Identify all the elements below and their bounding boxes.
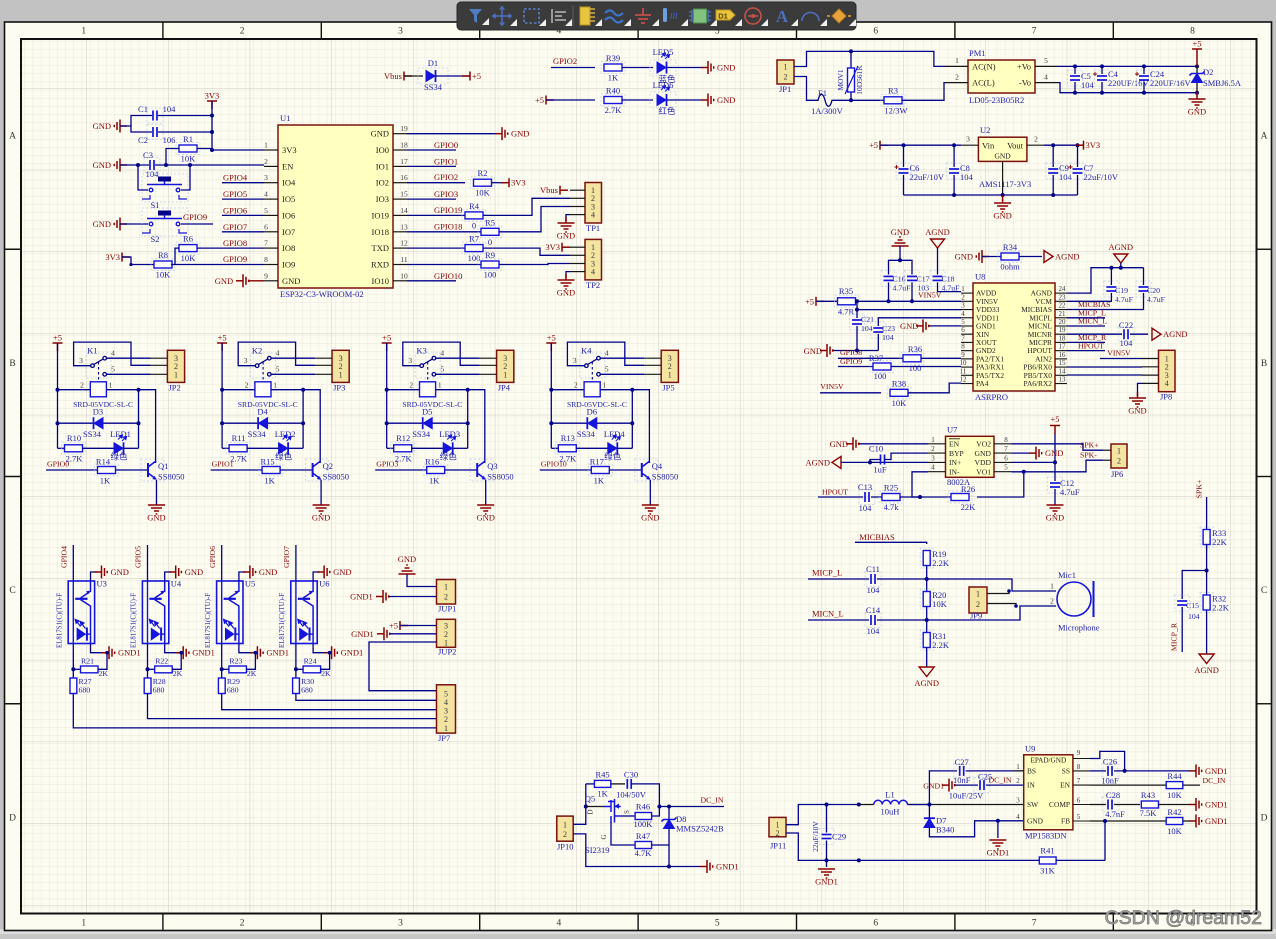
svg-text:IO5: IO5 bbox=[282, 194, 295, 204]
connector JP3 bbox=[332, 350, 349, 382]
svg-text:R10: R10 bbox=[67, 433, 81, 443]
wire K pin4 bbox=[600, 357, 644, 359]
svg-text:11: 11 bbox=[400, 255, 407, 264]
resistor R37 bbox=[870, 361, 894, 373]
svg-text:680: 680 bbox=[301, 686, 313, 695]
wire left rail bbox=[386, 343, 388, 448]
svg-text:1: 1 bbox=[931, 436, 935, 444]
svg-text:10: 10 bbox=[400, 271, 408, 280]
optocoupler U5 EL817 bbox=[217, 581, 243, 644]
wire bbox=[818, 496, 863, 498]
wire left rail bbox=[550, 343, 552, 448]
svg-text:IN: IN bbox=[1027, 781, 1035, 790]
svg-text:20: 20 bbox=[1059, 318, 1067, 326]
ground GND1 fb bbox=[1189, 815, 1202, 828]
svg-text:Q4: Q4 bbox=[652, 461, 663, 471]
svg-text:III: III bbox=[670, 11, 678, 21]
wire JP7 pin4 long bbox=[296, 694, 437, 701]
power +5 U2 bbox=[880, 141, 888, 150]
svg-text:2: 2 bbox=[80, 381, 84, 390]
svg-text:4: 4 bbox=[557, 919, 562, 929]
svg-text:1: 1 bbox=[784, 63, 788, 72]
pin 18 IO0 bbox=[393, 149, 407, 151]
wire bbox=[389, 596, 437, 598]
power 3V3 R2 bbox=[501, 178, 509, 187]
svg-text:Mic1: Mic1 bbox=[1058, 570, 1076, 580]
pin 15 PB6/RX0 bbox=[1055, 366, 1067, 368]
ground GND LED5 bbox=[701, 61, 714, 74]
svg-text:1K: 1K bbox=[264, 476, 275, 486]
svg-text:GPIO7: GPIO7 bbox=[223, 222, 247, 232]
capacitor C20 bbox=[1143, 268, 1145, 285]
svg-text:C29: C29 bbox=[832, 832, 846, 842]
svg-text:JP9: JP9 bbox=[970, 610, 982, 620]
wire emitter bbox=[320, 480, 322, 505]
wire JP1 pin2 down bbox=[794, 77, 815, 101]
connector JUP1 bbox=[437, 580, 456, 605]
svg-text:7.5K: 7.5K bbox=[1140, 808, 1158, 818]
svg-text:绿色: 绿色 bbox=[604, 452, 622, 462]
ic U1 ESP32-C3-WROOM-02 bbox=[278, 125, 393, 288]
wire bbox=[551, 67, 595, 69]
svg-text:2: 2 bbox=[245, 381, 249, 390]
svg-text:6: 6 bbox=[264, 222, 268, 231]
svg-text:680: 680 bbox=[153, 686, 165, 695]
svg-text:L1: L1 bbox=[885, 790, 894, 800]
svg-text:D5: D5 bbox=[422, 407, 432, 417]
pin U7 row 3 bbox=[928, 461, 946, 463]
pin 19 MICNR bbox=[1055, 333, 1067, 335]
connector TP2 bbox=[585, 239, 602, 280]
capacitor C8 bbox=[953, 145, 955, 167]
svg-text:D: D bbox=[587, 809, 595, 814]
svg-text:R2: R2 bbox=[478, 168, 488, 178]
svg-text:C16: C16 bbox=[893, 275, 906, 284]
wire rA right bbox=[321, 653, 330, 670]
power +5 JUP2 bbox=[400, 621, 408, 630]
svg-text:3: 3 bbox=[264, 173, 268, 182]
optocoupler U4 EL817 bbox=[142, 581, 168, 644]
wire bbox=[499, 207, 570, 232]
transistor Q2 SS8050 bbox=[306, 459, 329, 481]
connector JP9 bbox=[969, 587, 987, 613]
pin 12 TXD bbox=[393, 247, 407, 249]
node bbox=[849, 98, 853, 102]
pin 2 EN bbox=[264, 165, 278, 167]
svg-text:GND: GND bbox=[557, 288, 575, 298]
svg-text:GND: GND bbox=[371, 129, 389, 139]
svg-text:2: 2 bbox=[784, 73, 788, 82]
svg-text:JP6: JP6 bbox=[1111, 469, 1123, 479]
svg-text:GND: GND bbox=[215, 276, 233, 286]
wire bbox=[546, 99, 595, 101]
ground GND1 U3 bbox=[91, 644, 104, 653]
svg-text:GND: GND bbox=[111, 567, 129, 577]
pin 17 IO1 bbox=[393, 165, 407, 167]
pin 15 IO3 bbox=[393, 198, 407, 200]
pin 3 VDD33 bbox=[961, 309, 973, 311]
svg-text:11: 11 bbox=[960, 367, 967, 375]
svg-text:CSDN @dream52: CSDN @dream52 bbox=[1105, 907, 1262, 929]
svg-text:JP8: JP8 bbox=[1160, 392, 1172, 402]
svg-text:AGND: AGND bbox=[1194, 665, 1219, 675]
pin 14 IO19 bbox=[393, 214, 407, 216]
resistor R36 bbox=[900, 352, 924, 364]
wire bbox=[611, 783, 625, 785]
svg-text:GPIO9: GPIO9 bbox=[840, 357, 862, 366]
resistor R1 bbox=[176, 143, 200, 155]
svg-text:4: 4 bbox=[591, 210, 595, 219]
wire opto bottom bbox=[295, 644, 297, 679]
svg-text:6: 6 bbox=[1004, 454, 1008, 462]
svg-text:IO10: IO10 bbox=[372, 276, 389, 286]
svg-text:U9: U9 bbox=[1025, 744, 1035, 754]
pin 7 XOUT bbox=[961, 341, 973, 343]
wire bbox=[122, 257, 155, 265]
wire K pin5 bbox=[107, 373, 151, 375]
wire TP1 pin4 gnd bbox=[566, 215, 570, 221]
svg-text:SS8050: SS8050 bbox=[323, 472, 349, 482]
svg-text:10nF: 10nF bbox=[1101, 776, 1119, 786]
svg-text:C1: C1 bbox=[138, 104, 148, 114]
svg-text:GPIO1: GPIO1 bbox=[212, 460, 234, 469]
svg-text:DC_IN: DC_IN bbox=[1203, 776, 1226, 785]
svg-text:GND: GND bbox=[641, 513, 659, 523]
ic U7 8002A bbox=[946, 436, 995, 477]
svg-text:EL817S1(C)(TU)-F: EL817S1(C)(TU)-F bbox=[279, 593, 286, 648]
optocoupler U3 EL817 bbox=[68, 581, 94, 644]
svg-text:GND: GND bbox=[557, 231, 575, 241]
wire bbox=[120, 223, 148, 225]
svg-text:GPIO0: GPIO0 bbox=[434, 140, 458, 150]
wire right rail bbox=[138, 390, 140, 449]
svg-text:AC(N): AC(N) bbox=[972, 62, 996, 72]
svg-text:GPIO6: GPIO6 bbox=[223, 205, 247, 215]
svg-text:GPIO2: GPIO2 bbox=[434, 172, 458, 182]
relay K2 switch bbox=[251, 353, 276, 378]
svg-text:3: 3 bbox=[931, 454, 935, 462]
svg-text:+5: +5 bbox=[472, 71, 481, 81]
svg-text:2: 2 bbox=[1034, 135, 1038, 144]
resistor R45 bbox=[586, 783, 595, 785]
svg-text:16: 16 bbox=[1059, 351, 1067, 359]
svg-text:2.2K: 2.2K bbox=[1212, 603, 1230, 613]
wire bbox=[816, 300, 837, 302]
wire K pin4 bbox=[271, 357, 315, 359]
svg-text:R43: R43 bbox=[1141, 790, 1155, 800]
svg-text:GND: GND bbox=[955, 252, 973, 262]
svg-text:104: 104 bbox=[867, 626, 881, 636]
svg-text:PA6/RX2: PA6/RX2 bbox=[1024, 379, 1053, 388]
node rails bbox=[1073, 64, 1077, 68]
svg-text:R17: R17 bbox=[590, 457, 604, 467]
svg-text:104: 104 bbox=[1188, 612, 1200, 621]
svg-text:3V3: 3V3 bbox=[1086, 140, 1101, 150]
wire JP1 pin1 top bbox=[794, 51, 946, 66]
svg-text:IO2: IO2 bbox=[376, 178, 389, 188]
wire bbox=[436, 75, 470, 77]
svg-text:R37: R37 bbox=[869, 353, 883, 363]
svg-text:GND1: GND1 bbox=[351, 629, 374, 639]
pin U7 row 2 bbox=[928, 452, 946, 454]
svg-text:C22: C22 bbox=[1119, 320, 1133, 330]
svg-text:D4: D4 bbox=[257, 407, 268, 417]
toolbar icon polygon bbox=[469, 9, 482, 23]
svg-text:2K: 2K bbox=[99, 669, 109, 678]
ground GND U4 top bbox=[165, 572, 172, 581]
svg-text:C10: C10 bbox=[869, 444, 883, 454]
inductor L1 bbox=[859, 804, 874, 806]
svg-text:SPK+: SPK+ bbox=[1195, 479, 1204, 498]
relay K3 switch bbox=[415, 353, 440, 378]
svg-text:GND: GND bbox=[93, 121, 111, 131]
svg-text:R14: R14 bbox=[96, 457, 111, 467]
pin 16 IO2 bbox=[393, 182, 407, 184]
svg-text:DC_IN: DC_IN bbox=[989, 776, 1012, 785]
pin 24 AGND bbox=[1055, 292, 1067, 294]
wire bbox=[955, 784, 978, 786]
wire bbox=[166, 149, 179, 166]
svg-text:1: 1 bbox=[563, 820, 567, 829]
ground GND pin19 bbox=[495, 127, 508, 140]
svg-text:R5: R5 bbox=[485, 217, 495, 227]
node bbox=[210, 114, 214, 118]
resistor R34 bbox=[998, 251, 1022, 263]
svg-text:5: 5 bbox=[264, 206, 268, 215]
wire jp8 pin2 bbox=[1067, 366, 1142, 368]
svg-text:7: 7 bbox=[264, 239, 268, 248]
svg-text:GPIO2: GPIO2 bbox=[553, 56, 577, 66]
svg-text:2: 2 bbox=[1016, 777, 1020, 785]
wire bbox=[249, 280, 264, 282]
svg-text:9: 9 bbox=[264, 271, 268, 280]
wire agnd in+ bbox=[841, 461, 928, 463]
svg-text:2: 2 bbox=[444, 593, 448, 602]
svg-text:10uF/25V: 10uF/25V bbox=[949, 791, 984, 801]
pin 17 HPOUT bbox=[1055, 350, 1067, 352]
wire -Vo rail bbox=[1057, 83, 1197, 93]
svg-text:AGND: AGND bbox=[925, 227, 950, 237]
resistor R13 bbox=[551, 447, 558, 449]
svg-text:ESP32-C3-WROOM-02: ESP32-C3-WROOM-02 bbox=[280, 289, 364, 299]
wire bbox=[871, 496, 882, 498]
wire bbox=[833, 350, 878, 352]
svg-text:U3: U3 bbox=[97, 579, 107, 589]
svg-text:GND1: GND1 bbox=[1205, 800, 1228, 810]
svg-text:GND: GND bbox=[312, 513, 330, 523]
wire JP7 pin2 long bbox=[148, 694, 437, 719]
svg-text:IO8: IO8 bbox=[282, 243, 295, 253]
svg-text:24: 24 bbox=[1059, 285, 1067, 293]
svg-text:C27: C27 bbox=[955, 757, 969, 767]
resistor R24 2K bbox=[296, 668, 303, 670]
svg-text:4: 4 bbox=[1044, 73, 1048, 82]
node bbox=[902, 143, 906, 147]
svg-text:GND: GND bbox=[993, 211, 1011, 221]
wire micp_l bbox=[808, 578, 869, 580]
led LED5 bbox=[650, 60, 676, 76]
svg-text:+5: +5 bbox=[218, 333, 227, 343]
wire jp11 pin1 bbox=[786, 805, 859, 825]
svg-text:10K: 10K bbox=[181, 154, 197, 164]
wire vdd33 bbox=[857, 309, 961, 311]
wire jp9 pin2 bbox=[987, 604, 1016, 607]
svg-text:R1: R1 bbox=[183, 134, 193, 144]
resistor R32 bbox=[1200, 593, 1213, 613]
svg-text:3: 3 bbox=[966, 135, 970, 144]
wire K pin4 bbox=[436, 357, 480, 359]
resistor R38 bbox=[887, 387, 911, 399]
svg-text:PM1: PM1 bbox=[969, 48, 986, 58]
svg-text:GND: GND bbox=[717, 63, 735, 73]
svg-text:SMBJ6.5A: SMBJ6.5A bbox=[1203, 78, 1242, 88]
wire bbox=[404, 75, 423, 77]
svg-text:5: 5 bbox=[276, 365, 280, 374]
ground GND1 U5 bbox=[239, 644, 252, 653]
wire fb down bbox=[1104, 821, 1106, 860]
svg-text:10: 10 bbox=[960, 359, 968, 367]
svg-text:AMS1117-3V3: AMS1117-3V3 bbox=[979, 179, 1031, 189]
node bbox=[164, 163, 168, 167]
svg-text:1K: 1K bbox=[594, 476, 605, 486]
svg-text:SS8050: SS8050 bbox=[652, 472, 678, 482]
svg-text:MICBIAS: MICBIAS bbox=[859, 532, 895, 542]
svg-text:3: 3 bbox=[408, 356, 412, 365]
svg-text:GND: GND bbox=[891, 227, 909, 237]
net port Vbus TP1 bbox=[560, 186, 568, 195]
net port 3V3 TP2 bbox=[562, 243, 570, 252]
capacitor C7 bbox=[1077, 145, 1079, 167]
ground GND1 JUP2 bbox=[377, 627, 390, 640]
led LED6 bbox=[650, 92, 676, 108]
svg-text:AGND: AGND bbox=[914, 678, 939, 688]
svg-text:4: 4 bbox=[440, 349, 444, 358]
svg-text:2.7K: 2.7K bbox=[605, 105, 623, 115]
svg-text:GPIO4: GPIO4 bbox=[60, 546, 69, 568]
svg-text:AC(L): AC(L) bbox=[972, 78, 995, 88]
svg-text:AGND: AGND bbox=[1163, 329, 1188, 339]
wire jp11 pin2 bbox=[786, 833, 1039, 860]
svg-text:5: 5 bbox=[1044, 56, 1048, 65]
svg-text:2: 2 bbox=[1050, 597, 1054, 606]
svg-text:1: 1 bbox=[1117, 446, 1121, 455]
svg-text:2K: 2K bbox=[173, 669, 183, 678]
svg-text:2: 2 bbox=[931, 445, 935, 453]
svg-text:GND1: GND1 bbox=[716, 862, 739, 872]
svg-text:GPIO5: GPIO5 bbox=[134, 546, 143, 568]
svg-text:3V3: 3V3 bbox=[282, 145, 297, 155]
net port AGND mic bbox=[919, 667, 934, 677]
wire emitter bbox=[649, 480, 651, 505]
svg-text:Q1: Q1 bbox=[158, 461, 168, 471]
svg-text:15: 15 bbox=[1059, 359, 1067, 367]
svg-text:GPIO6: GPIO6 bbox=[208, 546, 217, 568]
wire coil pin2 bbox=[387, 389, 420, 391]
diode D7 B340 bbox=[928, 805, 930, 819]
svg-text:GND: GND bbox=[804, 346, 822, 356]
svg-text:+5: +5 bbox=[805, 296, 814, 306]
svg-text:+Vo: +Vo bbox=[1017, 62, 1031, 72]
svg-text:SS8050: SS8050 bbox=[487, 472, 513, 482]
svg-text:4.7uF: 4.7uF bbox=[1115, 295, 1134, 304]
svg-text:10K: 10K bbox=[475, 188, 491, 198]
pin 18 MICPR bbox=[1055, 341, 1067, 343]
wire coil pin1 bbox=[271, 390, 320, 462]
svg-text:GND: GND bbox=[476, 513, 494, 523]
svg-text:1: 1 bbox=[109, 381, 113, 390]
svg-text:22K: 22K bbox=[961, 502, 977, 512]
svg-text:Vbus: Vbus bbox=[384, 71, 402, 81]
svg-text:104: 104 bbox=[1120, 338, 1134, 348]
svg-text:MICP_L: MICP_L bbox=[812, 568, 842, 578]
svg-text:GND: GND bbox=[147, 513, 165, 523]
svg-text:D1: D1 bbox=[718, 12, 728, 21]
wire bridge K pin3 bbox=[567, 342, 644, 366]
wire opto bottom bbox=[147, 644, 149, 679]
resistor R25 bbox=[879, 491, 903, 503]
svg-text:3: 3 bbox=[244, 356, 248, 365]
svg-text:0ohm: 0ohm bbox=[1000, 262, 1020, 272]
wire coil pin1 bbox=[106, 390, 155, 462]
relay K4 switch bbox=[580, 353, 605, 378]
wire bbox=[499, 264, 570, 265]
net port Vbus bbox=[404, 72, 412, 81]
svg-text:104: 104 bbox=[1081, 80, 1095, 90]
wire bbox=[926, 607, 928, 634]
wire bbox=[1206, 610, 1208, 654]
wire JUP2 pin1 to JP7 pin5 bbox=[369, 642, 437, 691]
svg-text:COMP: COMP bbox=[1049, 800, 1070, 809]
svg-text:5: 5 bbox=[605, 365, 609, 374]
svg-text:5: 5 bbox=[961, 318, 965, 326]
wire bbox=[622, 67, 653, 69]
transistor Q4 SS8050 bbox=[635, 459, 658, 481]
svg-text:+5: +5 bbox=[535, 95, 544, 105]
wire bbox=[158, 131, 212, 133]
svg-text:+5: +5 bbox=[547, 333, 556, 343]
svg-text:23: 23 bbox=[1059, 293, 1067, 301]
svg-text:GND: GND bbox=[975, 449, 992, 458]
capacitor C10 bbox=[880, 455, 882, 465]
wire base bbox=[445, 469, 478, 471]
svg-text:GND1: GND1 bbox=[350, 592, 373, 602]
svg-text:A: A bbox=[1261, 132, 1268, 142]
resistor R27 680 bbox=[70, 678, 77, 694]
svg-text:4: 4 bbox=[591, 267, 595, 276]
wire bbox=[926, 566, 928, 593]
svg-text:GND1: GND1 bbox=[266, 648, 289, 658]
svg-text:3: 3 bbox=[573, 356, 577, 365]
svg-text:Q3: Q3 bbox=[487, 461, 497, 471]
svg-text:SS: SS bbox=[1062, 767, 1070, 776]
connector JP7 bbox=[437, 685, 456, 733]
resistor R29 680 bbox=[218, 678, 225, 694]
svg-text:3V3: 3V3 bbox=[511, 178, 526, 188]
ground GND1 C29 bbox=[826, 860, 828, 867]
wire jp10 pin1 bbox=[573, 784, 586, 824]
svg-text:31K: 31K bbox=[1040, 866, 1056, 876]
svg-text:6: 6 bbox=[873, 919, 878, 929]
wire bbox=[1206, 545, 1208, 597]
svg-text:EL817S1(C)(TU)-F: EL817S1(C)(TU)-F bbox=[57, 593, 64, 648]
wire bbox=[652, 807, 660, 817]
resistor R15 bbox=[211, 469, 263, 471]
svg-text:JP3: JP3 bbox=[333, 383, 345, 393]
svg-text:R39: R39 bbox=[606, 53, 620, 63]
svg-text:R15: R15 bbox=[261, 457, 275, 467]
svg-text:GND: GND bbox=[1188, 107, 1206, 117]
ground GND Q4 bbox=[642, 505, 659, 514]
